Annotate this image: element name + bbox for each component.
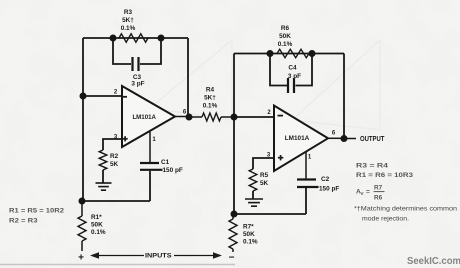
svg-text:LM101A: LM101A xyxy=(285,135,310,142)
svg-text:R3: R3 xyxy=(124,9,133,16)
svg-text:3 pF: 3 pF xyxy=(288,73,301,80)
svg-text:+: + xyxy=(78,253,84,264)
svg-text:0.1%: 0.1% xyxy=(203,103,218,110)
svg-text:C1: C1 xyxy=(161,159,170,166)
svg-text:R3 = R4: R3 = R4 xyxy=(356,163,388,170)
svg-text:0.1%: 0.1% xyxy=(121,25,136,32)
svg-text:R7*: R7* xyxy=(243,224,254,231)
svg-text:150 pF: 150 pF xyxy=(163,167,183,174)
svg-text:150 pF: 150 pF xyxy=(319,186,339,193)
svg-text:5K†: 5K† xyxy=(204,95,216,102)
svg-text:0.1%: 0.1% xyxy=(91,229,106,236)
svg-text:50K: 50K xyxy=(91,222,103,229)
svg-text:R2: R2 xyxy=(110,153,119,160)
svg-text:50K: 50K xyxy=(279,33,291,40)
svg-text:=: = xyxy=(366,189,370,196)
svg-text:mode rejection.: mode rejection. xyxy=(362,216,409,223)
svg-text:R2 = R3: R2 = R3 xyxy=(9,218,38,225)
svg-text:50K: 50K xyxy=(243,231,255,238)
svg-text:R1*: R1* xyxy=(91,214,102,221)
svg-text:0.1%: 0.1% xyxy=(243,239,258,246)
svg-text:SeekIC.com: SeekIC.com xyxy=(407,256,460,267)
svg-text:C2: C2 xyxy=(321,176,330,183)
svg-text:3 pF: 3 pF xyxy=(131,81,144,88)
svg-text:LM101A: LM101A xyxy=(132,114,156,121)
svg-text:5K: 5K xyxy=(260,180,269,187)
svg-text:0.1%: 0.1% xyxy=(278,41,293,48)
svg-text:R6: R6 xyxy=(374,195,383,202)
svg-text:*†Matching determines common: *†Matching determines common xyxy=(354,206,457,213)
svg-text:R1 = R5 = 10R2: R1 = R5 = 10R2 xyxy=(9,208,64,215)
svg-text:R7: R7 xyxy=(374,185,383,192)
svg-text:OUTPUT: OUTPUT xyxy=(360,136,385,143)
svg-text:R6: R6 xyxy=(281,25,290,32)
svg-text:INPUTS: INPUTS xyxy=(145,253,172,260)
svg-text:5K†: 5K† xyxy=(122,17,134,24)
svg-text:−: − xyxy=(229,253,235,264)
svg-text:C4: C4 xyxy=(288,65,297,72)
svg-text:R1 = R6 = 10R3: R1 = R6 = 10R3 xyxy=(356,172,413,179)
svg-text:R5: R5 xyxy=(260,172,269,179)
svg-text:5K: 5K xyxy=(110,161,119,168)
svg-text:R4: R4 xyxy=(206,87,215,94)
